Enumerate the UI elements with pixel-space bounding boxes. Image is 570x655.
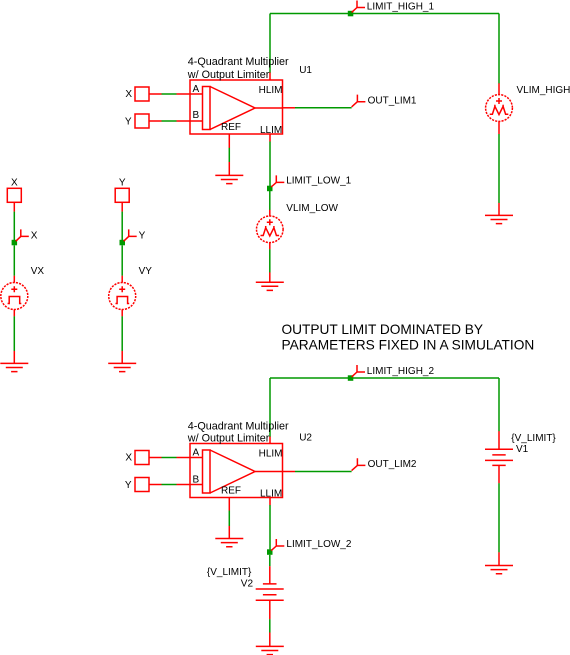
pin of Y top port xyxy=(121,202,123,211)
pin + of VLIM_HIGH xyxy=(498,83,500,95)
pin - of VLIM_HIGH xyxy=(498,121,500,134)
wire LLIM to LIMIT_LOW_1 xyxy=(269,142,271,187)
svg-text:U2: U2 xyxy=(299,432,312,443)
svg-text:LLIM: LLIM xyxy=(260,125,282,136)
svg-text:B: B xyxy=(193,110,200,121)
wire LIMIT_LOW_2 to V2 xyxy=(269,555,271,567)
svg-text:HLIM: HLIM xyxy=(259,449,283,460)
ground pin (VX) xyxy=(13,351,15,364)
U2 output line xyxy=(255,471,283,473)
svg-text:A: A xyxy=(193,447,200,458)
battery V1 (VDC) xyxy=(485,449,513,465)
pin + of V1 xyxy=(498,431,500,449)
net alias tap LIMIT_LOW_2 xyxy=(271,539,284,551)
ground 0 (V2) xyxy=(256,646,284,654)
op-amp multiplier U1 body xyxy=(190,80,283,134)
pin - of VY xyxy=(121,310,123,317)
junction LIMIT_LOW_2 xyxy=(267,549,273,555)
U1 A stub xyxy=(190,93,203,95)
ground pin (U2 REF) xyxy=(228,526,230,539)
net alias tap Y xyxy=(124,229,137,241)
U1 input buffer rectangle xyxy=(203,87,211,130)
ground 0 (U1 REF) xyxy=(215,175,243,183)
ground 0 (VX) xyxy=(0,363,28,371)
pin + of VY xyxy=(121,276,123,283)
U2 B stub xyxy=(190,484,203,486)
wire X to A (U2) xyxy=(162,457,177,459)
Y input port of U2 xyxy=(135,478,149,492)
svg-text:w/ Output Limiter: w/ Output Limiter xyxy=(187,433,270,445)
pin LLIM of U2 (bottom) xyxy=(269,498,271,506)
pin + of VLIM_LOW xyxy=(269,210,271,217)
wire X to A xyxy=(162,93,177,95)
svg-text:LIMIT_LOW_2: LIMIT_LOW_2 xyxy=(286,539,351,550)
X input port of U2 xyxy=(135,451,149,465)
svg-text:X: X xyxy=(31,230,38,241)
Y top port xyxy=(115,188,129,202)
wire VX to ground xyxy=(13,316,15,351)
wire Y to B xyxy=(162,120,177,122)
net alias tap LIMIT_HIGH_1 xyxy=(352,1,365,13)
net alias tap OUT_LIM1 xyxy=(352,95,366,107)
ground pin (VLIM_LOW) xyxy=(269,272,271,282)
U2 A stub xyxy=(190,457,203,459)
U1 B stub xyxy=(190,120,203,122)
svg-text:VY: VY xyxy=(139,266,153,277)
pin REF of U2 xyxy=(228,498,230,511)
wire net LIMIT_HIGH_2 horizontal xyxy=(270,377,499,379)
pin HLIM of U2 (top) xyxy=(269,437,271,444)
wire OUT_LIM1 xyxy=(295,107,352,109)
svg-text:w/ Output Limiter: w/ Output Limiter xyxy=(187,69,270,81)
ground pin (V1) xyxy=(498,552,500,565)
net alias tap LIMIT_LOW_1 xyxy=(271,175,284,187)
wire X port to junction xyxy=(13,212,15,240)
pin B of U2 xyxy=(177,484,191,486)
pin of X top port xyxy=(13,202,15,211)
pin of Y port xyxy=(149,120,162,122)
pin + of VX xyxy=(13,276,15,283)
svg-text:LLIM: LLIM xyxy=(260,488,282,499)
U2 input buffer rectangle xyxy=(203,450,211,493)
svg-text:B: B xyxy=(193,474,200,485)
svg-text:Y: Y xyxy=(119,178,126,189)
ground pin (V2) xyxy=(269,633,271,647)
X input port of U1 xyxy=(135,87,149,101)
wire LLIM to LIMIT_LOW_2 xyxy=(269,505,271,549)
battery V2 (VDC flipped) xyxy=(256,584,284,600)
junction LIMIT_LOW_1 xyxy=(267,186,273,192)
pin A of U2 xyxy=(177,457,191,459)
pin A of U1 xyxy=(177,93,191,95)
wire Y to B (U2) xyxy=(162,484,177,486)
wire VY to ground xyxy=(121,316,123,351)
wire V2 to ground xyxy=(269,619,271,632)
U2 triangle xyxy=(210,450,255,493)
svg-text:OUT_LIM2: OUT_LIM2 xyxy=(368,459,417,470)
pin - of VLIM_LOW xyxy=(269,243,271,250)
ground pin (VLIM_HIGH) xyxy=(498,203,500,216)
wire junction to VX xyxy=(13,245,15,275)
wire Y port to junction xyxy=(121,212,123,240)
svg-text:V1: V1 xyxy=(516,444,529,455)
wire VLIM_HIGH to ground xyxy=(498,134,500,203)
U1 triangle xyxy=(210,87,255,130)
wire REF to ground xyxy=(228,148,230,162)
source VX (VPULSE) xyxy=(1,283,28,310)
ground 0 (U2 REF) xyxy=(215,539,243,547)
wire vertical from U2 HLIM up to LIMIT_HIGH_2 xyxy=(269,378,271,437)
pin HLIM of U1 (top) xyxy=(269,73,271,81)
op-amp multiplier U2 body xyxy=(190,444,283,498)
wire junction to VY xyxy=(121,245,123,275)
svg-text:A: A xyxy=(193,84,200,95)
svg-text:VLIM_LOW: VLIM_LOW xyxy=(286,203,338,214)
wire net LIMIT_HIGH_1 horizontal xyxy=(270,13,499,15)
X top port xyxy=(7,188,21,202)
junction LIMIT_HIGH_1 xyxy=(348,11,354,16)
pin + of V2 xyxy=(269,600,271,619)
wire from LIMIT_HIGH_1 down to VLIM_HIGH xyxy=(498,14,500,84)
pin LLIM of U1 (bottom) xyxy=(269,134,271,142)
pin OUT of U2 xyxy=(283,471,296,473)
pin of X port (U2) xyxy=(149,457,162,459)
pin of Y port (U2) xyxy=(149,484,162,486)
svg-text:Y: Y xyxy=(139,230,146,241)
Y input port of U1 xyxy=(135,114,149,128)
pin B of U1 xyxy=(177,120,191,122)
svg-text:OUT_LIM1: OUT_LIM1 xyxy=(368,95,417,106)
source VLIM_LOW (VPWL) xyxy=(257,216,284,243)
U1 output line xyxy=(255,107,283,109)
source VY (VPULSE) xyxy=(109,283,136,310)
net alias tap OUT_LIM2 xyxy=(352,458,366,470)
svg-text:V2: V2 xyxy=(241,578,254,589)
svg-text:Y: Y xyxy=(125,480,132,491)
ground 0 (VY) xyxy=(108,363,136,371)
svg-text:X: X xyxy=(125,453,132,464)
pin - of V2 xyxy=(269,566,271,584)
net alias tap X xyxy=(16,229,29,241)
wire from LIMIT_HIGH_2 down to V1 xyxy=(498,378,500,431)
svg-text:LIMIT_LOW_1: LIMIT_LOW_1 xyxy=(286,175,351,186)
source VLIM_HIGH (VPWL) xyxy=(486,95,513,122)
junction Y xyxy=(120,240,126,246)
svg-text:VLIM_HIGH: VLIM_HIGH xyxy=(517,85,570,96)
svg-text:HLIM: HLIM xyxy=(259,85,283,96)
pin of X port xyxy=(149,93,162,95)
junction LIMIT_HIGH_2 xyxy=(348,375,354,381)
ground pin (U1 REF) xyxy=(228,162,230,176)
svg-text:{V_LIMIT}: {V_LIMIT} xyxy=(511,433,556,444)
svg-text:{V_LIMIT}: {V_LIMIT} xyxy=(207,567,252,578)
svg-text:REF: REF xyxy=(221,122,241,133)
wire vertical from U1 HLIM up to LIMIT_HIGH_1 xyxy=(269,14,271,74)
svg-text:X: X xyxy=(125,89,132,100)
pin - of VX xyxy=(13,310,15,317)
junction X xyxy=(12,240,18,246)
svg-text:4-Quadrant Multiplier: 4-Quadrant Multiplier xyxy=(188,56,289,68)
svg-text:OUTPUT LIMIT DOMINATED BY: OUTPUT LIMIT DOMINATED BY xyxy=(282,322,484,337)
ground 0 (V1) xyxy=(485,566,513,574)
wire REF to ground (U2) xyxy=(228,511,230,527)
pin REF of U1 xyxy=(228,134,230,148)
wire V1 to ground xyxy=(498,483,500,552)
net alias tap LIMIT_HIGH_2 xyxy=(352,365,365,377)
ground 0 (VLIM_LOW) xyxy=(256,282,284,290)
wire OUT_LIM2 xyxy=(295,471,352,473)
pin - of V1 xyxy=(498,465,500,483)
svg-text:VX: VX xyxy=(31,266,45,277)
svg-text:X: X xyxy=(11,178,18,189)
ground 0 (VLIM_HIGH) xyxy=(485,215,513,223)
svg-text:U1: U1 xyxy=(299,65,312,76)
svg-text:LIMIT_HIGH_1: LIMIT_HIGH_1 xyxy=(367,1,435,12)
wire LIMIT_LOW_1 to VLIM_LOW xyxy=(269,191,271,210)
pin OUT of U1 xyxy=(283,107,296,109)
svg-text:4-Quadrant Multiplier: 4-Quadrant Multiplier xyxy=(188,420,289,432)
svg-text:REF: REF xyxy=(221,486,241,497)
svg-text:PARAMETERS FIXED IN A SIMULATI: PARAMETERS FIXED IN A SIMULATION xyxy=(282,337,535,352)
ground pin (VY) xyxy=(121,351,123,364)
svg-text:Y: Y xyxy=(125,116,132,127)
svg-text:LIMIT_HIGH_2: LIMIT_HIGH_2 xyxy=(367,366,435,377)
wire VLIM_LOW to ground xyxy=(269,249,271,272)
